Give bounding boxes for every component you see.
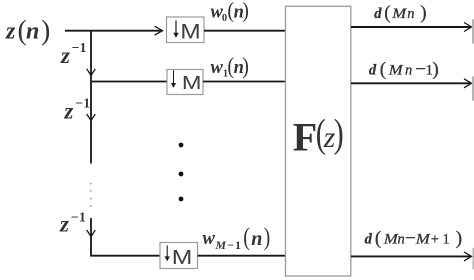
svg-text:): ) [432, 59, 438, 80]
svg-text:n: n [407, 6, 414, 22]
svg-text:−1: −1 [75, 96, 90, 111]
svg-text:d: d [374, 6, 382, 22]
svg-text:n: n [405, 62, 412, 78]
svg-text:M: M [182, 72, 202, 93]
cropped stage box edge row 2 [472, 76, 474, 100]
output label d(Mn-M+1) [365, 228, 463, 249]
delay z^-1 label 2 [63, 96, 90, 124]
arrowhead down on delay chain (above row 3) [87, 230, 96, 237]
arrowhead down on delay chain (mid) [87, 114, 96, 121]
svg-text:−1: −1 [72, 40, 87, 55]
wire: F(z) output row 2 with arrowhead [351, 79, 472, 88]
svg-text:z: z [5, 19, 16, 45]
svg-text:(: ( [375, 228, 381, 249]
input label z(n) [5, 15, 50, 46]
delay z^-1 label 3 [59, 210, 86, 237]
wire: F(z) output row 3 with arrowhead [351, 252, 472, 261]
svg-text:w: w [203, 229, 216, 249]
svg-text:M: M [388, 62, 404, 78]
wire: input row 1 horizontal [65, 30, 161, 32]
downsampler box M2 [167, 70, 203, 95]
svg-text:M: M [383, 231, 399, 247]
svg-text:M: M [172, 246, 193, 269]
svg-text:+: + [431, 231, 439, 247]
svg-text:−: − [227, 238, 234, 252]
svg-text:n: n [251, 228, 262, 250]
wire: M1 output to F(z) [204, 30, 286, 32]
svg-text:0: 0 [222, 13, 227, 24]
downsampler box M3 [160, 243, 198, 269]
svg-text:M: M [391, 6, 407, 22]
arrowhead into downsampler M1 [155, 26, 163, 35]
svg-text:): ) [242, 53, 249, 79]
delay z^-1 label 1 [60, 40, 87, 68]
svg-text:d: d [369, 62, 377, 78]
svg-text:): ) [456, 228, 462, 249]
vertical ellipsis between downsamplers [179, 143, 184, 202]
cropped stage box edge row 3 [473, 248, 474, 269]
svg-text:M: M [180, 19, 200, 43]
svg-text:): ) [420, 3, 426, 24]
svg-text:z: z [59, 212, 69, 237]
svg-text:): ) [264, 223, 271, 251]
svg-text:z: z [60, 43, 70, 68]
svg-text:−: − [405, 228, 416, 249]
wire: M3 output to F(z) [198, 255, 287, 257]
svg-text:n: n [398, 231, 405, 247]
downsampler box M1 [167, 17, 205, 43]
svg-text:): ) [334, 110, 344, 155]
svg-text:1: 1 [443, 231, 450, 247]
svg-text:): ) [41, 15, 50, 46]
cropped stage box edge row 1 [472, 19, 474, 43]
wire: F(z) output row 1 with arrowhead [351, 23, 472, 32]
wire: vertical delay chain upper segment [90, 30, 92, 164]
svg-text:w: w [211, 58, 224, 78]
svg-text:): ) [242, 0, 249, 23]
output label d(Mn-1) [369, 59, 439, 80]
svg-text:F: F [293, 114, 317, 159]
wire: vertical delay chain lower segment with corner into row 3 [91, 218, 160, 256]
block F(z) [286, 6, 351, 276]
svg-text:z: z [63, 98, 73, 123]
svg-text:−1: −1 [71, 210, 86, 225]
svg-text:n: n [26, 19, 39, 45]
dotted continuation of delay chain [90, 183, 92, 208]
signal label w_M-1(n) [203, 223, 271, 252]
svg-text:1: 1 [235, 238, 241, 252]
svg-text:M: M [415, 231, 431, 247]
output label d(Mn) [374, 3, 426, 24]
arrowhead down on delay chain (above row 2) [87, 69, 96, 76]
svg-text:(: ( [243, 223, 250, 251]
signal label w_0(n) [211, 0, 249, 24]
svg-text:M: M [214, 238, 226, 252]
wire: M2 output to F(z) [203, 81, 286, 83]
svg-text:−: − [415, 59, 426, 80]
svg-text:d: d [365, 231, 373, 247]
svg-text:(: ( [384, 3, 390, 24]
svg-text:(: ( [380, 59, 386, 80]
signal label w_1(n) [211, 53, 249, 80]
wire: row 2 horizontal from junction to M2 [91, 81, 167, 83]
